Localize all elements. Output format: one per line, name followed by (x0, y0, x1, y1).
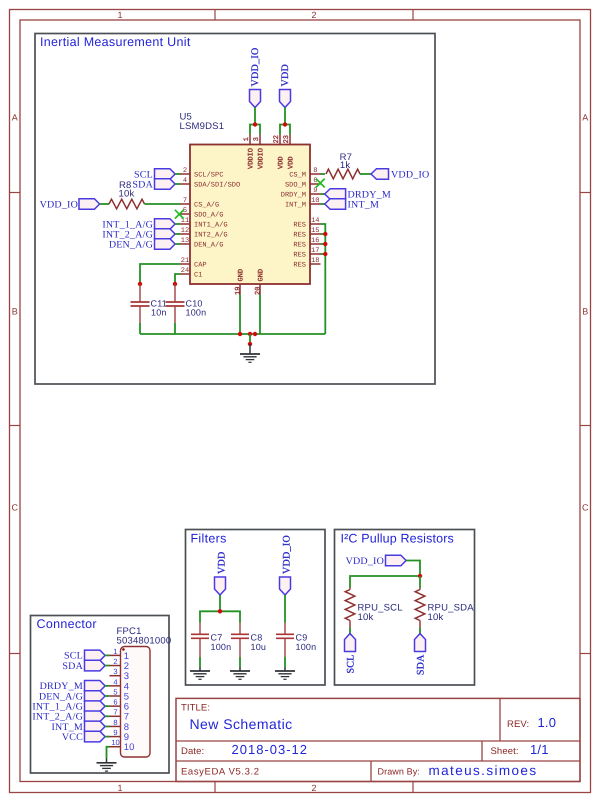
svg-text:VDDIO: VDDIO (247, 148, 255, 169)
Connector section box (31, 616, 170, 774)
svg-text:10k: 10k (119, 189, 135, 200)
svg-text:RES: RES (293, 242, 306, 250)
net flag INT_M (325, 199, 379, 211)
svg-text:RES: RES (293, 222, 306, 230)
resistor RPU_SCL (345, 588, 403, 628)
svg-text:Sheet:: Sheet: (491, 746, 519, 757)
svg-text:Inertial Measurement Unit: Inertial Measurement Unit (40, 35, 191, 49)
U5 pin 15 RES (293, 227, 320, 239)
wire VDD to pins 22,23 (280, 108, 290, 135)
svg-text:2: 2 (311, 10, 316, 20)
svg-text:VDD: VDD (287, 156, 295, 169)
net flag INT_M connector pin 8 (51, 721, 105, 733)
svg-text:10: 10 (311, 197, 319, 205)
svg-text:10n: 10n (151, 307, 167, 317)
svg-text:VDD_IO: VDD_IO (346, 556, 384, 567)
wire VDD down (219, 595, 221, 611)
I2C section box (335, 530, 475, 686)
svg-text:20: 20 (254, 287, 262, 295)
U5 pin 3 VDDIO top (253, 135, 265, 170)
wire RPU_SCL to SCL flag (349, 628, 351, 634)
wire R7 to VDD_IO (360, 173, 371, 175)
connector FPC1 pin 1 (110, 647, 130, 662)
svg-text:INT1_A/G: INT1_A/G (194, 221, 228, 230)
svg-text:21: 21 (181, 257, 189, 265)
U5 pin 5 SDO_A/G (180, 207, 223, 219)
U5 pin 21 CAP (180, 257, 207, 269)
capacitor C8 (231, 623, 266, 658)
U5 pin 4 SDA/SDI/SDO (180, 177, 240, 189)
wire SDA (175, 183, 180, 185)
svg-text:23: 23 (283, 135, 291, 143)
svg-text:CS_M: CS_M (289, 172, 306, 180)
svg-text:SCL: SCL (345, 655, 356, 674)
wire pin 2 (105, 665, 109, 667)
svg-text:GND: GND (257, 269, 265, 282)
net flag INT_1_A/G (102, 219, 175, 231)
svg-text:SDO_M: SDO_M (285, 182, 306, 190)
wire C7 to ground (199, 657, 201, 667)
capacitor C11 (131, 284, 167, 323)
connector FPC1 pin 8 (110, 718, 130, 733)
net flag INT_2_A/G connector pin 7 (32, 711, 105, 723)
svg-text:VDD: VDD (280, 64, 291, 87)
svg-text:C: C (11, 503, 18, 513)
junction RES pin16 (323, 242, 327, 246)
svg-text:VDD: VDD (216, 551, 227, 574)
svg-text:C: C (582, 503, 589, 513)
ground IMU (240, 344, 260, 362)
frame column tick bottom 2 (412, 782, 414, 793)
wire junction to RPU_SCL (350, 576, 420, 588)
svg-text:SDA: SDA (62, 661, 83, 672)
wire pin 7 (105, 715, 109, 717)
svg-text:1: 1 (117, 10, 122, 20)
svg-text:RES: RES (293, 232, 306, 240)
wire pin 6 (105, 705, 109, 707)
svg-text:10u: 10u (251, 642, 267, 652)
frame column tick top 1 (214, 10, 216, 21)
U5 pin 11 INT1_A/G (180, 217, 228, 229)
svg-text:Drawn By:: Drawn By: (378, 767, 420, 777)
connector FPC1 pin 7 (110, 708, 130, 723)
net flag DEN_A/G connector pin 5 (39, 691, 105, 703)
U5 pin 16 RES (293, 237, 320, 249)
svg-text:A: A (12, 113, 18, 123)
svg-text:1k: 1k (340, 160, 350, 171)
wire VDD_IO to R8 (100, 203, 109, 205)
net flag SDA connector pin 2 (62, 660, 105, 672)
net flag DRDY_M (325, 189, 391, 201)
svg-text:1.0: 1.0 (538, 715, 557, 730)
op IC U5 LSM9DS1 body (190, 145, 310, 285)
junction C11 top (138, 282, 142, 286)
svg-text:11: 11 (181, 217, 189, 225)
connector FPC1 pin 9 (110, 728, 130, 743)
svg-text:EasyEDA V5.3.2: EasyEDA V5.3.2 (181, 767, 260, 778)
wire C10 bottom (174, 323, 176, 334)
wire RES pin16 stub (321, 243, 326, 245)
wire C11 bottom (139, 323, 141, 334)
frame row tick left 3 (10, 653, 21, 655)
U5 pin 1 VDDIO top (243, 135, 255, 170)
ground connector (97, 759, 117, 772)
svg-text:19: 19 (234, 287, 242, 295)
wire C8 to ground (239, 657, 241, 667)
wire CAP pin21 left (140, 264, 180, 284)
junction bus extra (253, 332, 257, 336)
junction i2c (418, 574, 422, 578)
svg-text:8: 8 (313, 167, 317, 175)
capacitor C10 (166, 284, 207, 323)
svg-text:B: B (582, 307, 588, 317)
resistor R7 (326, 152, 360, 179)
svg-text:VCC: VCC (62, 732, 83, 743)
svg-text:1: 1 (243, 137, 251, 141)
title block border (176, 698, 580, 781)
net flag SDA pin4 (132, 179, 175, 191)
wire pin8 to R7 (321, 173, 326, 175)
svg-text:1/1: 1/1 (530, 742, 549, 757)
svg-text:4: 4 (183, 177, 187, 185)
junction VDD pins 22,23 (283, 122, 287, 126)
net flag SCL connector pin 1 (64, 650, 105, 662)
svg-text:12: 12 (181, 227, 189, 235)
svg-text:22: 22 (273, 135, 281, 143)
U5 pin 8 CS_M (289, 167, 320, 179)
svg-text:VDD_IO: VDD_IO (281, 535, 292, 574)
svg-text:3: 3 (253, 137, 261, 141)
svg-text:4: 4 (113, 677, 117, 686)
connector FPC1 pin 6 (110, 698, 130, 713)
svg-text:Connector: Connector (37, 617, 97, 631)
svg-text:DEN_A/G: DEN_A/G (194, 241, 223, 250)
net flag VDD_IO left (40, 199, 100, 211)
no-connect X pin 6 (316, 179, 325, 188)
wire pin 1 (105, 654, 109, 656)
capacitor C9 (276, 623, 316, 658)
net flag SDA i2c (415, 634, 427, 676)
net flag VCC connector pin 9 (62, 731, 105, 743)
svg-text:17: 17 (311, 247, 319, 255)
U5 pin 7 CS_A/G (180, 197, 219, 209)
connector FPC1 pin 10 (110, 738, 135, 753)
resistor RPU_SDA (415, 588, 474, 628)
svg-text:2: 2 (183, 167, 187, 175)
svg-text:10: 10 (111, 738, 119, 747)
svg-text:RES: RES (293, 262, 306, 270)
U5 pin 13 DEN_A/G (180, 237, 223, 249)
junction RES pin17 (323, 252, 327, 256)
svg-text:1: 1 (117, 783, 122, 793)
net flag VDD_IO i2c (346, 555, 407, 567)
wire R8 to pin7 (145, 203, 181, 205)
svg-text:9: 9 (113, 728, 117, 737)
svg-text:VDD: VDD (277, 156, 285, 169)
svg-text:CAP: CAP (194, 262, 207, 270)
junction C10 top (173, 282, 177, 286)
svg-text:LSM9DS1: LSM9DS1 (180, 121, 225, 132)
net flag DEN_A/G (109, 239, 175, 251)
U5 pin 9 DRDY_M (281, 187, 321, 199)
wire VDD_IO to pins 1,3 (250, 108, 260, 135)
U5 pin 2 SCL/SPC (180, 167, 223, 179)
svg-text:mateus.simoes: mateus.simoes (429, 763, 538, 778)
connector FPC1 body (121, 647, 151, 758)
net flag INT_2_A/G (102, 229, 175, 241)
U5 pin 22 VDD top (273, 135, 285, 170)
power flag VDD filters (215, 551, 228, 595)
wire C7 C8 top (200, 611, 240, 622)
frame row tick left 2 (10, 425, 21, 427)
wire SCL (175, 173, 180, 175)
svg-text:5: 5 (113, 687, 117, 696)
svg-text:5034801000: 5034801000 (117, 636, 172, 647)
net flag SCL i2c (345, 634, 357, 674)
svg-text:VDD_IO: VDD_IO (391, 170, 429, 181)
svg-text:DRDY_M: DRDY_M (281, 192, 306, 200)
ground C7 (190, 667, 210, 679)
svg-text:10: 10 (124, 742, 135, 753)
svg-text:16: 16 (311, 237, 319, 245)
svg-text:CS_A/G: CS_A/G (194, 201, 219, 210)
wire ground stem (249, 334, 251, 344)
wire ground bus bottom (140, 333, 325, 335)
power flag VDD_IO top (250, 47, 261, 107)
svg-text:5: 5 (183, 207, 187, 215)
net flag VDD_IO right (371, 169, 429, 181)
wire RPU_SDA to SDA flag (419, 628, 421, 634)
wire pin 9 (105, 736, 109, 738)
svg-text:100n: 100n (211, 642, 232, 652)
svg-text:SDA: SDA (132, 180, 153, 191)
connector FPC1 pin 2 (110, 657, 130, 672)
net flag DRDY_M connector pin 4 (40, 681, 106, 693)
svg-text:7: 7 (113, 708, 117, 717)
net flag INT_1_A/G connector pin 6 (32, 701, 105, 713)
IMU section box (35, 34, 435, 385)
wire C9 to ground (284, 657, 286, 667)
svg-text:15: 15 (311, 227, 319, 235)
svg-text:14: 14 (311, 217, 319, 225)
U5 pin 18 RES (293, 257, 320, 269)
wire C1 pin24 left (175, 274, 180, 284)
svg-text:INT_M: INT_M (285, 202, 306, 210)
junction ground stem (248, 342, 252, 346)
wire INT_2_A/G (175, 233, 180, 235)
junction RES pin15 (323, 232, 327, 236)
wire pin10 (321, 203, 325, 205)
U5 pin 20 GND bottom (254, 269, 265, 295)
svg-text:VDD_IO: VDD_IO (250, 47, 261, 86)
frame row tick right 2 (580, 425, 591, 427)
frame row tick left 1 (10, 192, 21, 194)
wire pin 4 (105, 685, 109, 687)
U5 pin 10 INT_M (285, 197, 321, 209)
svg-text:SDA/SDI/SDO: SDA/SDI/SDO (194, 181, 240, 190)
svg-text:VDDIO: VDDIO (257, 148, 265, 169)
svg-text:SDO_A/G: SDO_A/G (194, 211, 223, 220)
svg-text:INT_M: INT_M (348, 199, 380, 210)
svg-text:8: 8 (113, 718, 117, 727)
svg-text:6: 6 (113, 698, 117, 707)
svg-text:24: 24 (181, 267, 189, 275)
svg-text:1: 1 (113, 647, 117, 656)
svg-text:13: 13 (181, 237, 189, 245)
svg-text:VDD_IO: VDD_IO (40, 200, 78, 211)
svg-text:3: 3 (113, 667, 117, 676)
svg-text:Filters: Filters (191, 532, 227, 546)
wire junction to RPU_SDA (419, 576, 421, 588)
svg-text:10k: 10k (358, 612, 374, 623)
connector pin1 marker dot (122, 648, 125, 651)
junction pin19 bus (238, 332, 242, 336)
net flag SCL pin2 (134, 169, 175, 181)
svg-text:100n: 100n (186, 307, 207, 317)
U5 pin 6 SDO_M (285, 177, 321, 189)
svg-text:I²C Pullup Resistors: I²C Pullup Resistors (341, 532, 454, 546)
junction bus ground stem (248, 332, 252, 336)
wire VDD_IO to C9 (284, 595, 286, 623)
connector FPC1 pin 4 (110, 677, 130, 692)
svg-text:9: 9 (313, 187, 317, 195)
svg-text:INT2_A/G: INT2_A/G (194, 231, 228, 240)
svg-text:C1: C1 (194, 272, 202, 280)
frame row tick right 1 (580, 192, 591, 194)
junction VDD_IO pins 1,3 (253, 122, 257, 126)
power flag VDD top (280, 64, 291, 108)
svg-text:2018-03-12: 2018-03-12 (232, 742, 309, 757)
resistor R8 (109, 180, 145, 209)
svg-text:SCL/SPC: SCL/SPC (194, 171, 223, 180)
wire RES pin14 to bus (321, 224, 326, 334)
wire RES pin17 stub (321, 253, 326, 255)
U5 pin 19 GND bottom (234, 269, 245, 295)
wire pin 5 (105, 695, 109, 697)
svg-text:DEN_A/G: DEN_A/G (109, 240, 153, 251)
wire pin9 (321, 193, 325, 195)
wire RES pin15 stub (321, 233, 326, 235)
U5 pin 23 VDD top (283, 135, 295, 170)
svg-text:B: B (12, 307, 18, 317)
svg-text:SDA: SDA (415, 654, 426, 675)
wire pin 10 to ground (107, 747, 110, 759)
U5 pin 17 RES (293, 247, 320, 259)
ground C9 (275, 667, 295, 679)
connector FPC1 pin 3 (110, 667, 130, 682)
power flag VDD_IO filters (280, 535, 293, 595)
capacitor C7 (191, 623, 231, 658)
frame row tick right 3 (580, 653, 591, 655)
svg-text:18: 18 (311, 257, 319, 265)
Filters section box (186, 530, 326, 686)
wire VDD_IO to junction (406, 561, 420, 577)
wire pin19 down (239, 295, 241, 335)
frame column tick top 2 (412, 10, 414, 21)
svg-text:10k: 10k (428, 612, 444, 623)
svg-text:New Schematic: New Schematic (190, 716, 293, 732)
svg-text:2: 2 (113, 657, 117, 666)
wire INT_1_A/G (175, 223, 180, 225)
wire pin20 down (259, 295, 261, 335)
U5 pin 14 RES (293, 217, 320, 229)
junction VDD C7 C8 (218, 609, 222, 613)
connector FPC1 pin 5 (110, 687, 130, 702)
no-connect X pin 5 (175, 210, 184, 219)
svg-text:RES: RES (293, 252, 306, 260)
U5 pin 24 C1 (180, 267, 202, 279)
frame column tick bottom 1 (214, 782, 216, 793)
ground C8 (230, 667, 250, 679)
wire pin 8 (105, 725, 109, 727)
svg-text:Date:: Date: (181, 746, 204, 757)
svg-text:100n: 100n (296, 642, 317, 652)
U5 pin 12 INT2_A/G (180, 227, 228, 239)
svg-text:REV:: REV: (507, 719, 529, 730)
svg-text:TITLE:: TITLE: (181, 703, 210, 714)
wire DEN_A/G (175, 243, 180, 245)
svg-text:2: 2 (311, 783, 316, 793)
svg-text:A: A (582, 113, 588, 123)
svg-text:7: 7 (183, 197, 187, 205)
svg-text:GND: GND (237, 269, 245, 282)
